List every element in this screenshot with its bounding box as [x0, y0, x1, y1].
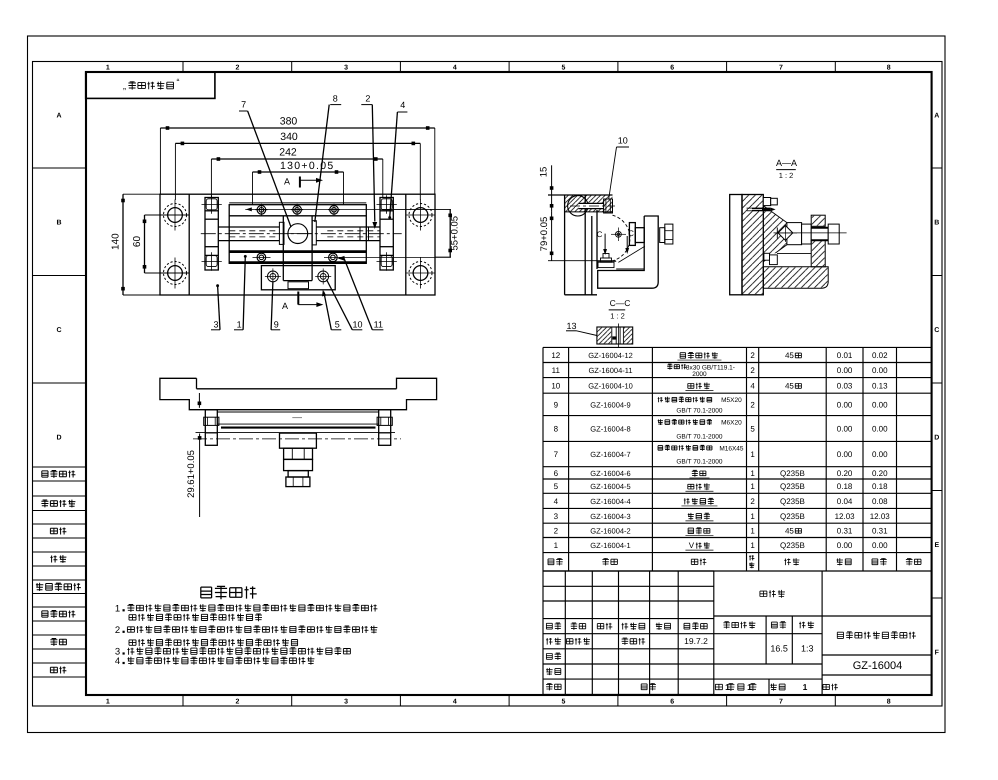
svg-text:10: 10: [551, 381, 560, 390]
svg-text:GB/T 70.1-2000: GB/T 70.1-2000: [676, 433, 723, 440]
svg-text:GZ-16004-2: GZ-16004-2: [590, 526, 630, 535]
svg-text:11: 11: [374, 319, 383, 329]
svg-text:A: A: [282, 301, 288, 311]
svg-text:0.08: 0.08: [872, 497, 888, 506]
svg-text:2: 2: [235, 64, 239, 71]
svg-text:Q235B: Q235B: [780, 497, 805, 506]
svg-text:6: 6: [670, 64, 674, 71]
svg-text:10: 10: [618, 136, 628, 146]
svg-text:1: 1: [750, 541, 755, 550]
svg-text:“: “: [177, 77, 180, 87]
svg-text:0.31: 0.31: [837, 526, 853, 535]
svg-text:380: 380: [280, 116, 298, 128]
svg-text:2: 2: [115, 625, 120, 636]
svg-text:11: 11: [552, 366, 561, 375]
svg-text:B: B: [56, 219, 61, 226]
svg-text:B: B: [934, 219, 939, 226]
svg-text:„: „: [123, 81, 126, 91]
svg-text:M16X45: M16X45: [719, 445, 744, 452]
svg-text:0.00: 0.00: [837, 366, 853, 375]
svg-text:12: 12: [551, 351, 560, 360]
svg-text:0.00: 0.00: [837, 541, 853, 550]
svg-text:9: 9: [554, 400, 559, 409]
svg-text:2000: 2000: [692, 371, 707, 378]
svg-text:C: C: [597, 230, 603, 239]
svg-text:3: 3: [213, 319, 218, 329]
svg-text:45: 45: [785, 526, 794, 535]
svg-text:0.01: 0.01: [837, 351, 853, 360]
svg-text:5: 5: [750, 425, 755, 434]
svg-text:6: 6: [670, 698, 674, 705]
svg-text:GB/T 70.1-2000: GB/T 70.1-2000: [676, 408, 723, 415]
svg-text:1: 1: [237, 319, 242, 329]
svg-text:1: 1: [750, 482, 755, 491]
svg-text:D: D: [934, 434, 939, 441]
svg-text:2: 2: [554, 526, 559, 535]
svg-text:2: 2: [750, 497, 755, 506]
svg-text:5: 5: [562, 698, 566, 705]
svg-text:4: 4: [453, 64, 457, 71]
svg-text:Q235B: Q235B: [780, 469, 805, 478]
svg-text:5: 5: [562, 64, 566, 71]
svg-text:GZ-16004-7: GZ-16004-7: [590, 450, 630, 459]
svg-text:5: 5: [554, 482, 559, 491]
svg-text:16.5: 16.5: [770, 644, 788, 654]
svg-text:0.00: 0.00: [872, 366, 888, 375]
svg-text:GZ-16004-1: GZ-16004-1: [590, 541, 630, 550]
svg-text:F: F: [935, 650, 940, 657]
svg-text:4: 4: [453, 698, 457, 705]
svg-text:2: 2: [750, 351, 755, 360]
svg-text:Q235B: Q235B: [780, 541, 805, 550]
svg-text:A: A: [934, 112, 939, 119]
svg-text:1:3: 1:3: [801, 644, 814, 654]
svg-text:GZ-16004-8: GZ-16004-8: [590, 425, 630, 434]
svg-text:0.13: 0.13: [872, 381, 888, 390]
svg-text:2: 2: [235, 698, 239, 705]
svg-text:7: 7: [554, 450, 559, 459]
svg-text:4: 4: [115, 656, 120, 667]
svg-text:Q235B: Q235B: [780, 482, 805, 491]
svg-text:A: A: [284, 176, 290, 186]
svg-text:0.00: 0.00: [872, 450, 888, 459]
svg-text:13: 13: [566, 321, 576, 331]
svg-text:A—A: A—A: [776, 158, 797, 168]
svg-text:C: C: [56, 327, 61, 334]
svg-text:8: 8: [887, 64, 891, 71]
svg-text:1: 1: [750, 512, 755, 521]
svg-text:15: 15: [539, 167, 550, 178]
svg-text:GZ-16004-6: GZ-16004-6: [590, 469, 630, 478]
svg-text:0.00: 0.00: [872, 541, 888, 550]
svg-text:GZ-16004-12: GZ-16004-12: [588, 351, 633, 360]
svg-text:0.31: 0.31: [872, 526, 888, 535]
svg-text:Q235B: Q235B: [780, 512, 805, 521]
svg-text:0.18: 0.18: [837, 482, 853, 491]
svg-text:4: 4: [750, 381, 755, 390]
svg-text:0.03: 0.03: [837, 381, 853, 390]
svg-text:2: 2: [365, 94, 370, 104]
svg-text:7: 7: [779, 698, 783, 705]
svg-text:GZ-16004-5: GZ-16004-5: [590, 482, 630, 491]
svg-text:1: 1: [554, 541, 559, 550]
svg-text:12.03: 12.03: [870, 512, 891, 521]
svg-text:M5X20: M5X20: [721, 397, 742, 404]
svg-text:242: 242: [279, 146, 297, 158]
svg-text:1: 1: [106, 698, 110, 705]
svg-text:V: V: [689, 541, 695, 550]
svg-text:0.20: 0.20: [837, 469, 853, 478]
svg-text:10: 10: [352, 319, 362, 329]
svg-text:8: 8: [887, 698, 891, 705]
svg-text:0.00: 0.00: [872, 425, 888, 434]
svg-text:140: 140: [111, 233, 122, 250]
svg-text:130+0.05: 130+0.05: [280, 160, 335, 172]
svg-text:3: 3: [344, 698, 348, 705]
svg-text:1 : 2: 1 : 2: [779, 171, 794, 180]
svg-text:E: E: [934, 542, 939, 549]
svg-text:8: 8: [333, 94, 338, 104]
svg-text:19.7.2: 19.7.2: [684, 636, 708, 646]
svg-text:GZ-16004-10: GZ-16004-10: [588, 381, 633, 390]
svg-text:5: 5: [335, 319, 340, 329]
svg-text:2: 2: [750, 400, 755, 409]
svg-text:2: 2: [750, 366, 755, 375]
svg-text:C: C: [934, 327, 939, 334]
svg-text:M6X20: M6X20: [721, 420, 742, 427]
svg-text:1: 1: [106, 64, 110, 71]
svg-text:340: 340: [280, 131, 298, 143]
svg-text:7: 7: [779, 64, 783, 71]
svg-text:1: 1: [115, 603, 120, 614]
svg-text:D: D: [56, 434, 61, 441]
svg-text:79+0.05: 79+0.05: [539, 217, 550, 252]
svg-text:3: 3: [344, 64, 348, 71]
svg-text:6: 6: [554, 469, 559, 478]
svg-text:GZ-16004-4: GZ-16004-4: [590, 497, 630, 506]
svg-text:3: 3: [554, 512, 559, 521]
svg-text:A: A: [56, 112, 61, 119]
svg-text:GZ-16004: GZ-16004: [853, 660, 903, 672]
svg-text:4: 4: [554, 497, 559, 506]
svg-text:7: 7: [241, 100, 246, 110]
svg-text:0.18: 0.18: [872, 482, 888, 491]
svg-text:1: 1: [803, 682, 808, 692]
svg-text:1: 1: [750, 469, 755, 478]
svg-text:12.03: 12.03: [835, 512, 856, 521]
svg-text:0.20: 0.20: [872, 469, 888, 478]
svg-text:29.61+0.05: 29.61+0.05: [186, 450, 197, 498]
svg-text:GB/T 70.1-2000: GB/T 70.1-2000: [676, 459, 723, 466]
svg-text:45: 45: [785, 351, 794, 360]
svg-text:9: 9: [274, 319, 279, 329]
svg-text:GZ-16004-3: GZ-16004-3: [590, 512, 630, 521]
svg-text:0.00: 0.00: [837, 400, 853, 409]
svg-text:GZ-16004-9: GZ-16004-9: [590, 400, 630, 409]
svg-text:0.00: 0.00: [872, 400, 888, 409]
svg-text:1: 1: [750, 526, 755, 535]
svg-text:0.04: 0.04: [837, 497, 853, 506]
svg-text:60: 60: [132, 236, 143, 248]
svg-text:C—C: C—C: [610, 298, 631, 308]
svg-text:0.02: 0.02: [872, 351, 888, 360]
svg-text:1: 1: [750, 450, 755, 459]
svg-text:GZ-16004-11: GZ-16004-11: [588, 366, 632, 375]
svg-text:4: 4: [400, 100, 405, 110]
svg-text:55+0.05: 55+0.05: [450, 216, 461, 251]
svg-text:45: 45: [785, 381, 794, 390]
svg-text:0.00: 0.00: [837, 450, 853, 459]
svg-text:8: 8: [554, 425, 559, 434]
svg-text:0.00: 0.00: [837, 425, 853, 434]
svg-text:1 : 2: 1 : 2: [610, 312, 625, 321]
